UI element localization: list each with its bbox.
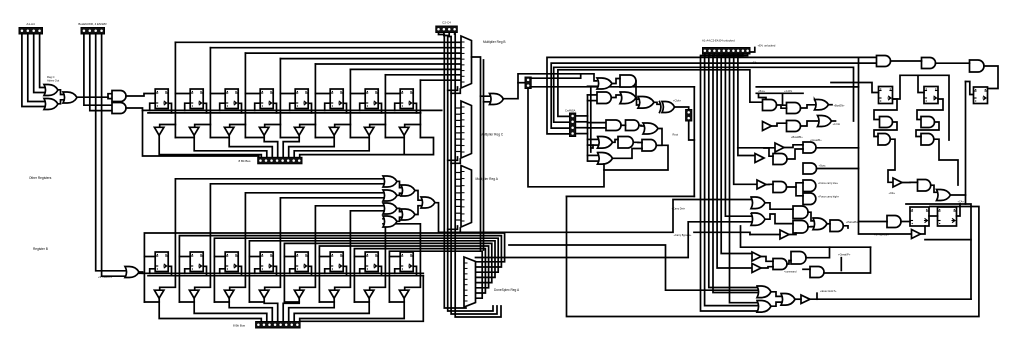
AND gate D5 [810, 267, 824, 278]
wire (reg B bit 6 to DoneSplex) [354, 249, 485, 302]
wire (FF enable loop) [150, 269, 156, 274]
buffer C1 [755, 154, 764, 163]
buffer B3 [763, 122, 772, 131]
flip-flop FF B0 [155, 252, 168, 272]
wire (zero-detect line / lower trunk) [265, 198, 383, 290]
wire (long control line 3) [554, 67, 854, 122]
multiplier register C (mux) [461, 101, 472, 158]
wire (shift link) [280, 137, 299, 139]
wire (cluster trunk B) [590, 87, 592, 152]
wire (to OR M1) [503, 74, 597, 99]
AND gate R2 [922, 58, 936, 69]
tri-state buffer A7 [399, 127, 409, 135]
wire (bus ctl line upper) [756, 86, 858, 88]
wire [761, 257, 773, 262]
wire (buffer B4 to bus) [283, 298, 299, 321]
wire (buffer A7 to bus) [300, 135, 405, 157]
wire (reg B bit 0 to DoneSplex) [144, 233, 504, 302]
wire (Reg C input stubs) [455, 108, 461, 152]
wire [772, 123, 787, 126]
OR gate M10 [598, 137, 613, 149]
wire (buffer B0 to bus) [159, 298, 261, 321]
flip-flop FF A6 [365, 89, 378, 109]
svg-text:+BusEN+: +BusEN+ [834, 104, 846, 108]
wire (FF output) [273, 266, 276, 275]
wire (FF input stub) [319, 256, 330, 258]
svg-text:+Great/P+: +Great/P+ [838, 252, 851, 256]
wire (to next FF input) [280, 93, 295, 95]
wire (conn down) [689, 121, 695, 140]
wire [22, 34, 44, 107]
wire (FF input stub) [214, 256, 225, 258]
OR gate (tree out) [421, 197, 435, 208]
OR gate D7 (halt 2) [757, 301, 771, 313]
wire (rail to bottom bus) [300, 276, 423, 322]
flip-flop FF B3 [260, 252, 273, 272]
wire [58, 90, 63, 95]
wire (FF output) [413, 266, 416, 275]
wire (FF output) [273, 103, 276, 113]
wire (Reg B out) [472, 57, 490, 96]
wire (buffer B7 to bus) [300, 298, 405, 321]
wire [77, 94, 112, 98]
AND gate R10 [921, 134, 934, 146]
multiplier register B (mux) [461, 36, 472, 88]
wire (clock bend) [448, 226, 458, 229]
flip-flop FF R4 [879, 87, 893, 104]
wire (GreatR out) [816, 147, 858, 149]
svg-text:A1-A4: A1-A4 [26, 22, 35, 26]
connector (CnANSA) [570, 113, 576, 137]
wire (halt label hook) [816, 293, 818, 299]
wire (shift link) [315, 137, 334, 139]
AND gate C13 [793, 221, 808, 234]
OR gate C10 [751, 197, 765, 209]
wire (carry path 2) [476, 222, 752, 258]
wire [929, 215, 938, 217]
wire (to next FF input) [175, 93, 190, 95]
wire (to next FF input) [210, 93, 225, 95]
wire (control line 3) [713, 54, 757, 293]
wire (buffer A3 to bus) [264, 135, 278, 157]
buffer D1 [752, 252, 761, 261]
svg-text:+Clck+: +Clck+ [673, 99, 682, 103]
wire (shift link) [385, 137, 404, 139]
wire (reg B bit 5 to DoneSplex) [319, 246, 488, 302]
wire (feedback loop) [604, 145, 668, 170]
wire (control line 9) [738, 54, 755, 156]
AND gate R16 [887, 216, 901, 228]
wire (to next FF input) [385, 93, 400, 95]
wire (R9 to buffer) [888, 139, 895, 182]
wire (carry path 1) [509, 245, 757, 290]
AND gate B1 [763, 100, 777, 111]
wire (gate input) [588, 100, 598, 102]
wire [765, 214, 793, 224]
wire [397, 181, 401, 187]
bus bar (bottom 8-bit bus) [256, 322, 301, 329]
wire (R13 out) [951, 194, 966, 196]
wire (FF output) [413, 103, 416, 113]
tri-state buffer A6 [364, 127, 374, 135]
AND gate C8 [803, 180, 816, 192]
wire (FF input stub) [179, 256, 190, 258]
wire (shift link) [175, 137, 194, 139]
OR gate R13 [937, 190, 951, 201]
OR gate (+SYNACC+) [125, 267, 139, 278]
wire (buffer B3 to bus) [264, 298, 278, 321]
tri-state buffer B7 [399, 290, 409, 298]
tri-state buffer A0 [154, 127, 164, 135]
wire (bit 1 riser) [209, 48, 211, 138]
wire (FF enable loop) [325, 269, 331, 274]
AND gate M2 [620, 75, 636, 87]
wire (shift link bottom) [389, 301, 404, 303]
wire (FF enable loop) [185, 103, 191, 110]
OR gate (tree in 3) [383, 203, 397, 214]
wire (CnANSA out) [576, 121, 588, 123]
wire [455, 33, 501, 318]
AND gate C9 [803, 193, 816, 205]
buffer C6 [757, 180, 766, 189]
wire [58, 100, 63, 104]
wire (trunk B tap) [591, 145, 593, 148]
svg-text:Register B: Register B [33, 247, 48, 251]
wire (FF output) [308, 103, 311, 113]
wire [808, 226, 813, 228]
wire [795, 298, 801, 300]
wire (+CA+ line) [906, 204, 971, 299]
wire (buffer A6 to bus) [294, 135, 369, 157]
svg-text:+Great/R+: +Great/R+ [810, 139, 822, 142]
wire (FF enable loop) [255, 269, 261, 274]
wire (E4 hook) [750, 48, 755, 53]
wire (buffer A5 to bus) [289, 135, 335, 157]
wire (control line 6) [725, 54, 751, 216]
wire (shift link bottom) [144, 301, 159, 303]
wire (conn down) [528, 89, 604, 187]
svg-text:+Force carry low+: +Force carry low+ [818, 182, 839, 185]
wire (shift link) [210, 137, 229, 139]
wire [783, 93, 787, 105]
OR gate B5 [815, 99, 829, 110]
wire (FF input stub) [284, 256, 295, 258]
wire (FF enable loop) [360, 103, 366, 110]
wire (reg B bit 2 to DoneSplex) [214, 238, 498, 302]
wire (buffer B1 to bus) [194, 298, 267, 321]
wire (control line 4) [717, 54, 752, 268]
wire [397, 193, 401, 195]
multiplier register A (mux) [461, 166, 472, 228]
wire (top row rail 2) [148, 112, 421, 114]
wire (clock bend) [448, 157, 458, 160]
wire (zero-detect line / lower trunk) [370, 219, 386, 290]
connector (mult control) [525, 77, 531, 89]
wire (clock bend 2) [451, 89, 460, 93]
wire [761, 267, 773, 268]
OR gate (tree in 2) [383, 190, 397, 201]
wire (clock bend) [448, 87, 458, 90]
wire (CnANSA out) [576, 127, 588, 129]
svg-text:+SYNACC+: +SYNACC+ [98, 275, 112, 279]
wire (clock bend 2) [451, 228, 460, 232]
wire (gate input) [588, 160, 598, 162]
wire (CnANSA out) [576, 115, 588, 117]
wire (buffer C2 feed) [738, 147, 775, 149]
AND gate R3 [970, 60, 985, 72]
wire (cluster bottom rail) [567, 195, 695, 197]
wire (bit 5 riser) [349, 69, 351, 137]
wire (buffer B2 to bus) [229, 298, 272, 321]
tri-state buffer A4 [294, 127, 304, 135]
OR gate (Reg C address decode upper) [44, 85, 58, 96]
buffer C16 [780, 230, 789, 239]
wire (reg A bit 2 to multiplier) [245, 52, 461, 54]
wire [829, 104, 833, 106]
wire (reg B bit 4 to DoneSplex) [284, 243, 491, 302]
wire (FF output) [343, 103, 346, 113]
wire (M9-M12 link) [657, 129, 662, 146]
wire (reg A bit 5 to multiplier) [350, 68, 461, 70]
svg-text:+E4, unlocked: +E4, unlocked [758, 44, 776, 48]
OR gate (tree in 4) [383, 216, 397, 227]
wire (FF input stub) [389, 256, 400, 258]
wire (buffer B5 to bus) [289, 298, 335, 321]
wire (to next FF input) [245, 93, 260, 95]
svg-text:C2-C4: C2-C4 [442, 20, 451, 24]
wire (reg A bit 4 to multiplier) [315, 63, 461, 65]
wire (FF enable loop) [255, 103, 261, 110]
svg-text:+4.Clo: +4.Clo [833, 122, 841, 126]
wire (trunk vertical 2) [480, 96, 482, 250]
wire [96, 34, 125, 271]
wire [102, 34, 125, 276]
wire (+Carry Bypass+ line) [694, 232, 750, 234]
wire [784, 145, 803, 148]
svg-text:+Bus+: +Bus+ [758, 90, 766, 93]
wire [771, 302, 781, 306]
wire [449, 33, 497, 315]
wire [765, 203, 793, 209]
wire (trunk vertical) [483, 60, 485, 250]
wire (control line 1) [705, 54, 757, 306]
wire (cluster trunk A) [587, 95, 589, 160]
wire (FF enable loop) [360, 269, 366, 274]
wire [612, 95, 620, 98]
svg-text:+CA+: +CA+ [958, 201, 965, 204]
wire [803, 268, 810, 270]
wire (+Carry Det+) [503, 200, 751, 233]
svg-text:+Clk+: +Clk+ [889, 192, 896, 195]
wire (right trunk 1) [965, 82, 967, 205]
wire [621, 124, 626, 126]
wire (bit 0 riser) [174, 42, 176, 137]
flip-flop FF B4 [295, 252, 308, 272]
svg-text:Multiplier Reg B: Multiplier Reg B [483, 40, 506, 44]
svg-text:BusEN/WR, 4 EN/WR: BusEN/WR, 4 EN/WR [78, 22, 106, 26]
wire (buffer A2 to bus) [229, 135, 272, 157]
wire (buffer B6 to bus) [294, 298, 369, 321]
wire (right long vertical) [859, 57, 912, 234]
wire (FF enable loop) [150, 103, 156, 110]
svg-text:Adres Out: Adres Out [47, 79, 59, 83]
flip-flop FF B7 [400, 252, 413, 272]
wire (reg A bit 1 to multiplier) [210, 47, 461, 49]
wire (shift link) [245, 137, 264, 139]
wire (gate input) [588, 154, 598, 156]
OR gate (Reg C address decode lower) [44, 99, 58, 110]
wire [832, 120, 836, 122]
OR gate M5 [638, 97, 654, 109]
wire (CnANSA out) [576, 133, 588, 135]
svg-text:+Carry Bypass+: +Carry Bypass+ [674, 234, 692, 237]
wire (control line 2) [709, 54, 757, 288]
svg-text:Rout: Rout [673, 132, 679, 136]
AND gate (write enable A) [112, 91, 126, 102]
wire (FF output) [168, 103, 171, 113]
wire (to next FF input) [350, 93, 365, 95]
wire [634, 141, 642, 143]
wire (conn out 2) [531, 86, 694, 88]
AND gate C5 [803, 163, 817, 174]
DoneSplex register A [464, 257, 476, 307]
svg-text:+4 APo: +4 APo [784, 90, 793, 93]
wire [40, 34, 44, 88]
AND gate B2 [787, 103, 801, 114]
AND gate R8 [921, 117, 935, 128]
tri-state buffer A2 [224, 127, 234, 135]
wire (gate input) [588, 138, 598, 140]
buffer R17 [912, 230, 921, 239]
AND gate C3 [773, 154, 787, 165]
connector J2 (BusEN/WR, 4 EN/WR) [81, 28, 105, 35]
wire (long control line 4) [558, 70, 763, 117]
AND gate C15 [830, 220, 843, 232]
buffer C2 [775, 143, 784, 152]
flip-flop FF R5 [924, 87, 938, 104]
wire (XOR out to conn) [675, 107, 689, 110]
wire (R17 out) [921, 226, 926, 234]
wire [636, 81, 638, 99]
svg-text:+Sync: +Sync [819, 165, 827, 168]
wire [787, 261, 791, 265]
wire (FF input stub) [249, 256, 260, 258]
wire (riser to buffer) [370, 125, 386, 128]
flip-flop FF B5 [330, 252, 343, 272]
flip-flop FF A5 [330, 89, 343, 109]
wire (FF enable loop) [325, 103, 331, 110]
flip-flop FF A0 [155, 89, 168, 109]
wire (riser to buffer) [405, 125, 421, 128]
tri-state buffer A1 [189, 127, 199, 135]
wire (FF enable loop) [220, 269, 226, 274]
wire [84, 34, 112, 105]
wire (shift link bottom) [249, 301, 264, 303]
wire (clock bend 2) [451, 159, 460, 163]
wire (gate input) [588, 127, 607, 129]
wire (shift link bottom) [284, 301, 299, 303]
OR gate (address combine) [63, 92, 77, 103]
wire [827, 223, 830, 225]
wire (riser to buffer) [300, 125, 316, 128]
OR gate M9 [643, 123, 658, 134]
AND gate R7 [880, 117, 893, 128]
flip-flop FF A4 [295, 89, 308, 109]
svg-text:8 Bit Bus: 8 Bit Bus [238, 159, 251, 163]
wire (FF output) [308, 266, 311, 275]
wire (reg B bit 1 to DoneSplex) [179, 236, 501, 302]
OR gate M1 [597, 78, 612, 89]
wire (reg B bit 3 to DoneSplex) [249, 241, 495, 302]
wire (R4 down) [874, 99, 897, 120]
wire (shift link bottom) [319, 301, 334, 303]
wire (FF R4 in) [831, 83, 879, 93]
wire (conn stub) [518, 82, 525, 84]
wire [126, 94, 155, 97]
wire (shift link bottom) [179, 301, 194, 303]
svg-text:DoneSplex Reg A: DoneSplex Reg A [494, 288, 520, 292]
XOR gate M6 [662, 102, 675, 113]
wire (bit 2 riser) [244, 53, 246, 137]
wire (riser to buffer) [230, 125, 246, 128]
wire (shift link bottom) [214, 301, 229, 303]
bus bar (top 8-bit bus) [258, 157, 302, 164]
wire (Reg A input stubs) [455, 173, 461, 221]
flip-flop FF R6 [974, 87, 988, 104]
wire (FF output) [238, 266, 241, 275]
wire [139, 272, 143, 273]
wire (buffer C16 out) [789, 233, 796, 235]
wire (zero-detect line / lower trunk) [160, 179, 383, 290]
wire (zero-detect line / lower trunk) [335, 211, 383, 290]
wire [787, 183, 804, 187]
wire (gate input) [588, 144, 598, 146]
AND gate M3 [597, 92, 611, 104]
wire (zero-detect line / lower trunk) [300, 206, 383, 290]
wire (top row rail 1) [143, 109, 442, 111]
AND gate M11 [618, 137, 633, 149]
wire [902, 181, 918, 183]
wire (R4-R5 chain) [893, 75, 925, 99]
wire (riser to buffer) [265, 125, 281, 128]
svg-text:A1-A4,C2-E4,E4 unlocked: A1-A4,C2-E4,E4 unlocked [702, 38, 735, 42]
wire (buffer A0 to bus) [159, 135, 261, 157]
wire (bottom frame) [567, 196, 979, 316]
wire (Sync out) [817, 168, 859, 170]
wire (FF input stub) [354, 256, 365, 258]
wire (gate input) [588, 122, 607, 124]
wire [787, 149, 803, 159]
wire [415, 191, 421, 201]
OR gate C11 [751, 213, 765, 226]
connector J3 (C2-C4) [436, 26, 458, 33]
AND gate M8 [626, 120, 639, 131]
AND gate C7 [773, 182, 787, 193]
wire (FF output) [378, 266, 381, 275]
OR gate B6 [818, 116, 832, 127]
tri-state buffer B4 [294, 290, 304, 298]
wire [34, 34, 44, 93]
wire (GreatP loop) [806, 247, 830, 258]
svg-text:Reg C: Reg C [47, 75, 55, 79]
OR gate M4 [620, 92, 636, 104]
wire [759, 93, 767, 102]
wire [484, 101, 490, 103]
svg-text:+PaCaPb+: +PaCaPb+ [846, 221, 859, 224]
wire (FF output) [203, 266, 206, 275]
wire (FF output) [378, 103, 381, 113]
wire [397, 208, 401, 211]
